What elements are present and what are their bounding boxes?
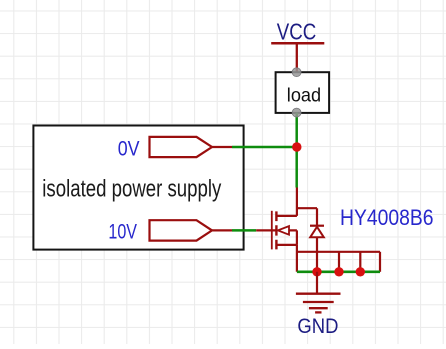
port tag 0V xyxy=(150,137,213,157)
ground bar 3 xyxy=(309,307,328,309)
body diode cathode bar xyxy=(310,225,324,227)
transistor Q1 substrate arrow xyxy=(278,226,289,235)
rail stub right end xyxy=(379,252,381,272)
transistor Q1 channel segments xyxy=(275,211,277,249)
source rail horizontal xyxy=(297,251,380,253)
ground bar 2 xyxy=(303,301,334,303)
ground stem xyxy=(316,272,318,294)
svg-text:HY4008B6: HY4008B6 xyxy=(340,205,434,230)
junction dot B xyxy=(312,267,321,276)
svg-text:10V: 10V xyxy=(108,220,137,244)
transistor Q1 gate plate xyxy=(271,211,273,250)
transistor Q1 gate lead xyxy=(256,229,277,231)
pin stub 10V xyxy=(212,229,232,231)
port tag 10V xyxy=(150,220,213,240)
rail stub 1 (diode leg through) xyxy=(316,252,318,272)
transistor Q1 arrow tail to source xyxy=(289,230,297,245)
ground bar 4 xyxy=(315,311,321,313)
junction dot C xyxy=(334,267,343,276)
rail stub 3 xyxy=(359,252,361,272)
isolated power supply box xyxy=(33,126,243,250)
transistor Q1 source lead xyxy=(277,245,297,272)
body diode anode lead xyxy=(316,237,318,252)
wire 10V to gate (green) xyxy=(232,229,256,232)
wire bottom rail (green) xyxy=(297,270,380,273)
svg-text:load: load xyxy=(287,84,321,106)
rail stub 2 xyxy=(338,252,340,272)
svg-text:VCC: VCC xyxy=(277,19,317,45)
junction dot A xyxy=(292,142,301,151)
pin stub 0V xyxy=(212,146,232,148)
svg-text:isolated power supply: isolated power supply xyxy=(42,175,221,202)
ground bar 1 xyxy=(296,293,341,295)
junction dot D xyxy=(356,267,365,276)
wire 0V to junction (green) xyxy=(232,146,297,149)
svg-text:GND: GND xyxy=(297,315,338,338)
svg-text:0V: 0V xyxy=(118,137,140,161)
body diode top branch xyxy=(297,208,317,226)
pin circle load bottom xyxy=(292,108,301,117)
body diode triangle xyxy=(310,227,324,238)
VCC stem wire xyxy=(296,43,298,72)
wire load to junction (green vertical) xyxy=(295,113,298,188)
transistor Q1 HY4008B6 drain lead xyxy=(277,188,297,216)
load box U-load xyxy=(276,72,330,113)
power flag VCC bar xyxy=(271,42,324,45)
pin circle load top xyxy=(292,68,301,77)
